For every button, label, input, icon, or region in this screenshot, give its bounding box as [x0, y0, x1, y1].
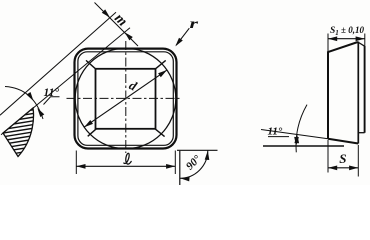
label d: [127, 77, 140, 94]
side view right edge (far): [364, 46, 366, 133]
corner facet line top-left: [86, 60, 96, 68]
extension line right (s): [357, 145, 359, 177]
bottom edge extension line: [261, 130, 328, 139]
m reference line (upper, through corner zone): [0, 12, 116, 115]
corner facet line bottom-left: [88, 129, 97, 137]
hatched clearance wedge section: [0, 101, 45, 160]
label m: [111, 10, 130, 29]
svg-text:11°: 11°: [44, 87, 60, 99]
svg-text:m: m: [111, 10, 130, 29]
extension line right (l): [174, 151, 176, 175]
top face square outline: [96, 69, 156, 129]
side view left edge: [327, 52, 329, 139]
horizontal centerline: [67, 97, 182, 99]
horizontal reference line (11 deg): [263, 145, 344, 147]
label s: [339, 151, 346, 166]
dimension line m: [95, 3, 139, 47]
svg-text:S1 ± 0,10: S1 ± 0,10: [330, 25, 364, 37]
svg-text:d: d: [127, 77, 140, 94]
label r: [190, 16, 200, 31]
label 11deg (plan view): [44, 87, 60, 99]
label l (script ell): [124, 153, 131, 164]
inscribed circle (diameter d): [75, 48, 176, 149]
dimension line s1: [328, 36, 365, 41]
cutting-edge inner offset line: [78, 52, 173, 146]
dimension line s: [328, 166, 358, 171]
label 90deg: [184, 153, 204, 173]
side view bottom edge: [328, 139, 358, 144]
svg-text:11°: 11°: [268, 125, 283, 137]
11-deg angle arc (side view): [294, 105, 307, 153]
11-deg angle arc: [5, 87, 44, 120]
90-deg reference vertical line: [179, 151, 181, 185]
label s1 +-0,10: [330, 25, 364, 37]
dimension line l: [76, 164, 175, 169]
90-deg angle arc: [180, 150, 210, 181]
svg-text:S: S: [339, 151, 346, 166]
extension line right (s1): [364, 34, 366, 46]
side view top edge: [327, 42, 358, 52]
svg-text:r: r: [190, 16, 200, 31]
side view lower-right jog: [358, 132, 364, 134]
vertical centerline: [125, 41, 127, 153]
extension line left (s1): [327, 34, 329, 52]
corner radius leader r: [175, 28, 189, 46]
extension line left (l): [75, 151, 77, 175]
insert outer outline (bottom face periphery): [75, 49, 177, 149]
corner facet line top-right: [156, 60, 166, 68]
11deg label underline: [268, 136, 289, 138]
dimension line d: [84, 70, 167, 127]
extension line left (s): [327, 140, 329, 173]
m reference line (lower, tangent to inscribed circle): [1, 28, 130, 135]
side view right edge (near): [357, 42, 359, 144]
90-deg reference horizontal line: [177, 149, 218, 151]
label 11deg (side view): [268, 125, 283, 137]
corner facet line bottom-right: [155, 129, 165, 137]
side view top-right step: [358, 42, 365, 46]
11-deg angle leg line: [44, 97, 60, 105]
